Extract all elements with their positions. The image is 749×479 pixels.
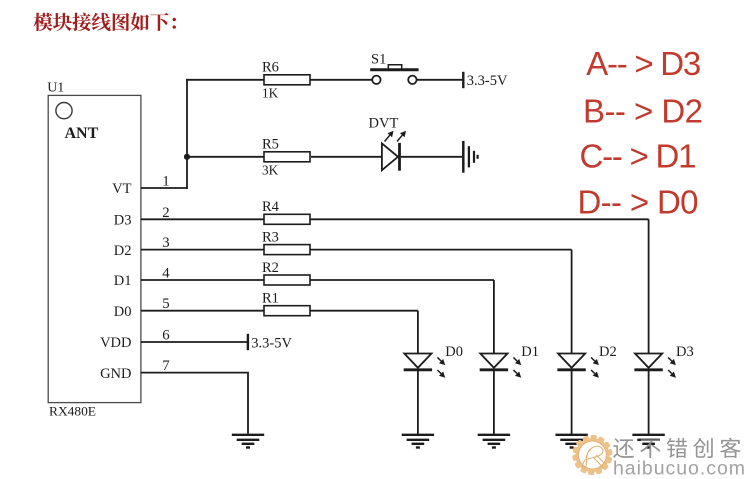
LED DVT	[369, 116, 407, 171]
LED D3	[634, 344, 693, 378]
svg-text:1K: 1K	[262, 86, 279, 101]
wire R4 to LED D3	[310, 218, 649, 220]
wire R6 to S1	[310, 79, 372, 81]
svg-text:RX480E: RX480E	[49, 403, 96, 418]
wire LED D3 to ground	[648, 370, 650, 436]
ground under LED D2	[555, 435, 587, 448]
wire pin1 VT stub	[141, 187, 188, 189]
watermark text 还不错创客	[613, 438, 741, 458]
svg-text:U1: U1	[47, 81, 64, 96]
wire R1 to LED D0	[310, 310, 418, 312]
switch S1	[370, 52, 418, 85]
ground under LED D3	[632, 435, 664, 448]
ground under LED D1	[478, 435, 510, 448]
resistor R4	[262, 199, 310, 224]
ground right rotated	[463, 141, 477, 173]
wire pin6 VDD	[141, 341, 248, 343]
wire pin to R2	[141, 279, 264, 281]
title 模块接线图如下	[34, 13, 176, 31]
wire pin to R1	[141, 310, 264, 312]
wire VT to R6	[186, 79, 264, 81]
svg-text:D0: D0	[114, 304, 132, 320]
LED D1	[480, 344, 539, 378]
svg-text:VDD: VDD	[100, 335, 131, 351]
svg-text:R4: R4	[262, 199, 280, 215]
svg-text:D2: D2	[114, 243, 132, 259]
wire riser LED D1	[493, 280, 495, 354]
svg-text:3K: 3K	[262, 163, 279, 178]
wire R3 to LED D2	[310, 249, 572, 251]
svg-text:ANT: ANT	[65, 125, 99, 142]
LED D2	[557, 344, 616, 378]
svg-text:R3: R3	[262, 229, 279, 245]
svg-text:DVT: DVT	[369, 116, 399, 132]
ground GND pin	[232, 435, 264, 448]
svg-text:D1: D1	[114, 273, 132, 289]
svg-text:D0: D0	[445, 344, 463, 360]
svg-text:3.3-5V: 3.3-5V	[467, 73, 508, 89]
svg-text:D2: D2	[599, 344, 617, 360]
wire LED D0 to ground	[417, 370, 419, 436]
wire riser LED D2	[571, 250, 573, 354]
wire riser LED D3	[648, 219, 650, 353]
svg-text:R6: R6	[262, 60, 279, 76]
svg-text:S1: S1	[371, 52, 386, 68]
pin numbers 1-7	[162, 174, 170, 375]
wire R2 to LED D1	[310, 279, 494, 281]
LED D0	[404, 344, 463, 378]
wire pin7 GND	[141, 373, 248, 436]
svg-text:D3: D3	[114, 213, 132, 229]
wire R5 to DVT	[311, 156, 382, 158]
wire LED D1 to ground	[493, 370, 495, 436]
svg-text:3.3-5V: 3.3-5V	[251, 335, 292, 351]
svg-text:haibucuo.com: haibucuo.com	[613, 457, 745, 479]
svg-text:B-- > D2: B-- > D2	[583, 92, 703, 129]
node VT junction	[184, 154, 190, 160]
svg-text:R2: R2	[262, 260, 279, 276]
wire pin to R4	[141, 218, 264, 220]
wire DVT to ground	[401, 156, 462, 158]
svg-text:C-- > D1: C-- > D1	[580, 138, 697, 175]
power terminal 3.3-5V top	[463, 72, 508, 89]
svg-text:D1: D1	[521, 344, 539, 360]
resistor R1	[262, 291, 310, 316]
ground under LED D0	[402, 435, 434, 448]
resistor R6	[262, 60, 310, 101]
svg-text:GND: GND	[100, 366, 131, 382]
watermark gear logo	[572, 435, 613, 476]
power terminal 3.3-5V VDD	[248, 334, 293, 352]
wire LED D2 to ground	[571, 370, 573, 436]
svg-text:VT: VT	[112, 181, 131, 197]
wire S1 to power	[417, 79, 464, 81]
svg-text:D3: D3	[676, 344, 694, 360]
wire riser LED D0	[417, 311, 419, 354]
wire VT to R5	[187, 156, 264, 158]
wire VT riser	[186, 79, 188, 189]
svg-text:A-- > D3: A-- > D3	[586, 45, 701, 82]
IC U1 RX480E	[47, 81, 141, 419]
resistor R2	[262, 260, 310, 285]
resistor R5	[262, 137, 310, 178]
svg-text:D-- > D0: D-- > D0	[578, 183, 699, 220]
svg-text:R1: R1	[262, 291, 279, 307]
resistor R3	[262, 229, 310, 254]
svg-text:R5: R5	[262, 137, 279, 153]
wire pin to R3	[141, 249, 264, 251]
